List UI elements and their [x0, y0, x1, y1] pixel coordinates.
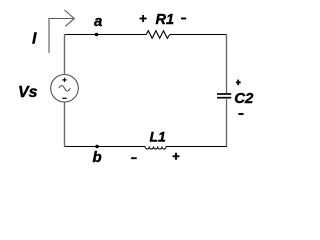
- plus polarity of C2: [236, 80, 241, 86]
- node a: [95, 33, 99, 37]
- svg-text:R1: R1: [156, 12, 175, 28]
- wire: top rail left of R1: [64, 34, 146, 36]
- svg-text:Vs: Vs: [18, 84, 38, 101]
- wire: right vertical below C2: [226, 98, 228, 147]
- minus polarity of C2: [238, 113, 243, 115]
- minus polarity of R1: [181, 18, 186, 20]
- wire: bottom rail right of L1: [166, 146, 227, 148]
- wire: top rail right of R1: [170, 34, 227, 36]
- resistor R1: [146, 31, 170, 39]
- node b: [95, 145, 99, 149]
- svg-text:b: b: [93, 149, 102, 166]
- plus polarity of L1: [173, 153, 180, 160]
- svg-text:L1: L1: [150, 129, 167, 145]
- wire: bottom rail left of L1: [64, 146, 145, 148]
- svg-text:I: I: [32, 31, 37, 48]
- wire: left vertical below Vs: [64, 102, 66, 147]
- inductor L1: [145, 147, 166, 150]
- minus polarity of L1: [131, 157, 137, 159]
- plus polarity of R1: [140, 15, 147, 22]
- wire: left vertical above Vs: [64, 34, 66, 75]
- wire: right vertical above C2: [226, 34, 228, 94]
- capacitor C2: [217, 94, 231, 98]
- svg-text:a: a: [94, 13, 102, 30]
- AC source Vs: [51, 75, 79, 103]
- svg-text:C2: C2: [234, 90, 254, 107]
- current arrow I: [49, 10, 74, 53]
